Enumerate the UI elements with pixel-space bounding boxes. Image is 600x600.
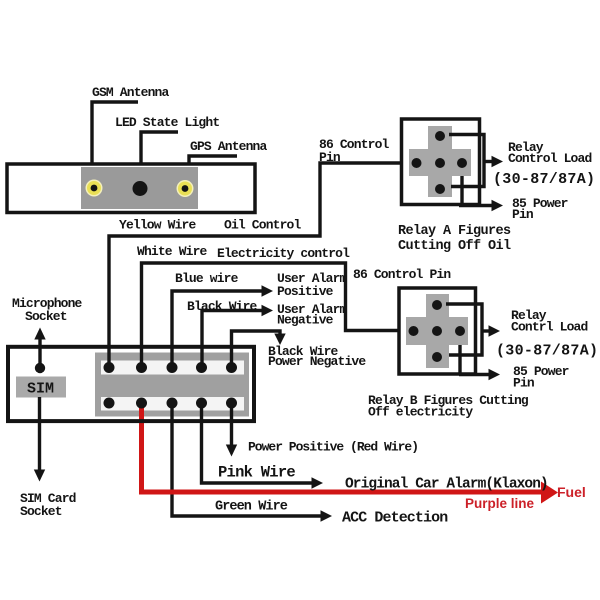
svg-text:Fuel: Fuel [557,484,586,500]
svg-text:Black Wire: Black Wire [187,299,258,314]
svg-text:Pin: Pin [513,376,535,391]
svg-text:Pin: Pin [512,207,534,222]
svg-text:White Wire: White Wire [137,244,208,259]
svg-text:Yellow Wire: Yellow Wire [119,218,197,233]
svg-text:Purple line: Purple line [465,496,535,511]
svg-text:Blue wire: Blue wire [175,271,239,286]
svg-text:Control Load: Control Load [508,151,591,166]
svg-text:Positive: Positive [277,284,334,299]
svg-text:Relay A Figures: Relay A Figures [398,224,511,239]
svg-text:ACC Detection: ACC Detection [342,510,448,527]
svg-text:Contrl Load: Contrl Load [511,320,588,335]
svg-text:GSM Antenna: GSM Antenna [92,85,170,100]
svg-text:Power Negative: Power Negative [268,354,366,369]
svg-text:Electricity control: Electricity control [217,246,350,261]
svg-text:Green Wire: Green Wire [215,500,288,515]
svg-text:86 Control Pin: 86 Control Pin [353,267,451,282]
svg-text:Socket: Socket [20,504,62,519]
svg-text:Original Car Alarm(Klaxon): Original Car Alarm(Klaxon) [345,477,548,493]
svg-text:(30-87/87A): (30-87/87A) [493,171,595,188]
svg-text:Pink Wire: Pink Wire [218,464,295,482]
svg-text:SIM: SIM [27,381,54,398]
svg-text:Socket: Socket [25,309,67,324]
svg-text:Cutting Off Oil: Cutting Off Oil [398,239,511,254]
svg-text:Power Positive (Red Wire): Power Positive (Red Wire) [248,440,418,455]
svg-text:Negative: Negative [277,313,334,328]
svg-text:Pin: Pin [319,150,341,165]
svg-text:GPS Antenna: GPS Antenna [190,139,268,154]
svg-text:(30-87/87A): (30-87/87A) [496,343,598,360]
svg-text:LED State Light: LED State Light [115,115,219,130]
svg-text:Off electricity: Off electricity [368,405,473,420]
svg-text:Oil Control: Oil Control [224,218,302,233]
